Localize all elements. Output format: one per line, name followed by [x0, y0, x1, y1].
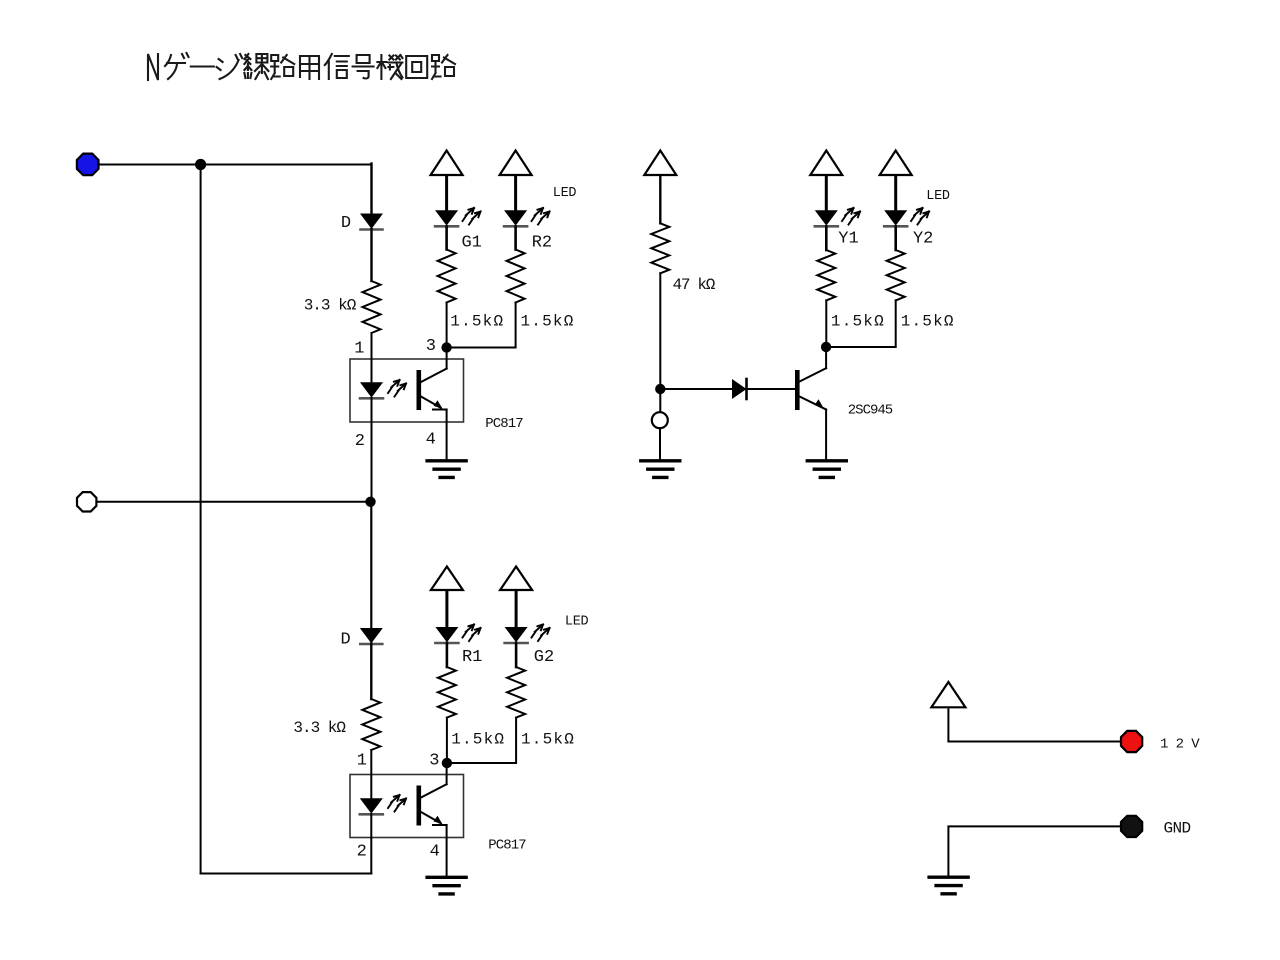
wire resistor R1 to node 3 (lower) [446, 718, 448, 763]
LED G2 arrows [532, 625, 550, 642]
wire top horizontal [92, 164, 372, 166]
LED G2 [505, 628, 555, 668]
wire resistor G1 to node 3 [446, 303, 448, 348]
node junction top-left [195, 159, 206, 170]
resistor 1.5 kΩ (R2) [507, 250, 575, 331]
power symbol (R2 column) [500, 151, 532, 176]
svg-text:G1: G1 [461, 233, 481, 252]
label LED (upper left pair) [553, 186, 577, 201]
svg-text:1: 1 [354, 340, 364, 359]
wire resistor 47k to base node [659, 273, 661, 412]
svg-text:G2: G2 [534, 648, 554, 667]
pin 3 node dot (upper opto) [426, 337, 452, 356]
ground (2SC945 emitter) [807, 461, 846, 478]
LED R2 arrows [532, 208, 550, 225]
power symbol (G1 column) [431, 151, 463, 176]
power symbol (12V legend) [931, 682, 965, 707]
svg-text:R2: R2 [532, 233, 552, 252]
resistor 47 kΩ [651, 223, 715, 294]
svg-text:Y1: Y1 [838, 229, 858, 248]
svg-text:3.3 kΩ: 3.3 kΩ [293, 719, 346, 737]
wire power to resistor 47k [659, 177, 661, 223]
LED G1 [435, 211, 482, 253]
svg-text:3.3 kΩ: 3.3 kΩ [304, 297, 357, 315]
svg-text:2SC945: 2SC945 [848, 403, 893, 419]
label GND [1163, 820, 1190, 838]
node base junction [655, 384, 665, 394]
svg-text:PC817: PC817 [488, 838, 526, 854]
svg-text:2: 2 [355, 432, 365, 451]
wire power to LED R1 [445, 592, 448, 629]
optocoupler U2 PC817 box [350, 775, 526, 854]
wire resistor to pin1 [371, 333, 373, 359]
resistor 1.5 kΩ (R1) [438, 667, 505, 749]
resistor 1.5 kΩ (Y2) [887, 250, 955, 330]
label LED (lower pair) [565, 614, 589, 629]
resistor 1.5 kΩ (Y1) [817, 250, 885, 330]
wire GND legend [948, 826, 1121, 876]
svg-text:D: D [341, 214, 351, 233]
resistor 3.3 kΩ (lower) [293, 699, 380, 750]
diode D (upper) [341, 214, 383, 233]
power symbol (Y2 column) [880, 151, 912, 176]
svg-text:4: 4 [430, 843, 440, 862]
LED Y1 arrows [842, 208, 860, 225]
optocoupler U1 PC817 box [350, 359, 523, 432]
svg-text:GND: GND [1163, 820, 1190, 838]
power symbol (R1 column) [431, 567, 463, 591]
resistor 3.3 kΩ (upper) [304, 281, 381, 333]
opto U1 LED arrows [388, 380, 406, 397]
node junction mid [365, 497, 375, 507]
wire base horizontal [660, 388, 732, 390]
wire LED R2 to resistor [514, 227, 517, 250]
pin 2 label (upper opto) [355, 432, 365, 451]
svg-text:47 kΩ: 47 kΩ [673, 276, 716, 294]
LED Y2 [884, 211, 933, 249]
resistor 1.5 kΩ (G2) [507, 667, 575, 749]
resistor 1.5 kΩ (G1) [438, 250, 505, 331]
wire diode to transistor base [747, 388, 796, 390]
ground (lower opto pin4) [427, 877, 466, 894]
svg-text:2: 2 [357, 843, 367, 862]
svg-text:1.5kΩ: 1.5kΩ [450, 313, 504, 331]
wire LED R1 to resistor [446, 643, 449, 667]
svg-text:PC817: PC817 [485, 416, 523, 432]
wire bottom horizontal [201, 873, 372, 875]
label 12V [1160, 737, 1200, 753]
svg-text:LED: LED [926, 189, 950, 204]
svg-text:3: 3 [426, 337, 436, 356]
LED G1 arrows [463, 208, 481, 225]
LED Y1 [815, 211, 859, 249]
wire power to LED Y2 [894, 177, 897, 212]
power symbol (G2 column) [500, 567, 532, 591]
ground (upper opto pin4) [427, 461, 466, 478]
pin 3 node dot (lower opto) [429, 751, 452, 770]
pin 1 label (lower opto) [357, 751, 367, 770]
terminal GND (black) [1121, 816, 1142, 837]
wire resistor to pin1 (lower) [370, 750, 372, 775]
wire resistor Y1 to collector node [825, 300, 827, 347]
wire mid horizontal [96, 501, 371, 503]
opto U1 internal LED [360, 359, 383, 422]
wire power to LED Y1 [825, 177, 828, 212]
wire diode to resistor (lower) [370, 644, 372, 700]
wire diode to resistor [370, 229, 372, 281]
wire power to LED G1 [445, 177, 448, 212]
wire resistor G2 down and to node 3 (lower) [447, 718, 516, 763]
wire resistor Y2 down and to collector node [826, 300, 896, 347]
wire power to LED R2 [514, 177, 517, 212]
wire mid rail to diode D (lower) [370, 502, 372, 630]
LED Y2 arrows [911, 208, 929, 225]
svg-text:D: D [340, 630, 350, 649]
power symbol (Y1 column) [810, 151, 842, 176]
opto U2 internal LED [360, 775, 383, 839]
LED R2 [504, 211, 552, 253]
wire LED Y2 to resistor [894, 227, 897, 251]
wire to diode D (upper) [370, 164, 372, 216]
ground (legend) [929, 877, 968, 894]
pin 4 label (upper opto) [426, 430, 436, 449]
LED R1 arrows [463, 625, 481, 642]
label LED (right pair) [926, 189, 950, 204]
wire LED Y1 to resistor [825, 227, 828, 251]
svg-text:1.5kΩ: 1.5kΩ [901, 312, 955, 330]
pin 1 label (upper opto) [354, 340, 364, 359]
opto U2 LED arrows [388, 795, 406, 812]
svg-text:R1: R1 [462, 648, 482, 667]
diode D (lower) [340, 629, 382, 650]
wire power to LED G2 [515, 592, 518, 629]
pin 2 label (lower opto) [357, 843, 367, 862]
wire pin2 down to bottom rail [370, 838, 372, 874]
terminal IN1 (blue) [77, 154, 99, 176]
ground (control input) [641, 461, 680, 478]
svg-text:1.5kΩ: 1.5kΩ [520, 313, 574, 331]
LED R1 [435, 628, 482, 668]
diode series (base) [732, 379, 747, 399]
title: Nゲージ線路用信号機回路 [148, 53, 455, 80]
pin 4 label (lower opto) [430, 843, 440, 862]
terminal 12V (red) [1121, 731, 1142, 752]
svg-text:3: 3 [429, 751, 439, 770]
transistor Q1 2SC945 [795, 352, 893, 461]
svg-text:1: 1 [357, 751, 367, 770]
terminal IN2 (open) [77, 492, 96, 511]
terminal control input (open circle) [652, 412, 668, 428]
svg-text:1.5kΩ: 1.5kΩ [831, 312, 885, 330]
collector node dot [821, 342, 831, 352]
wire circle to ground [659, 428, 661, 461]
wire LED G1 to resistor [445, 227, 448, 250]
svg-text:1.5kΩ: 1.5kΩ [521, 731, 575, 749]
wire 12V legend [948, 710, 1121, 742]
wire pin2 down to mid rail [371, 422, 373, 502]
opto U2 phototransistor [417, 768, 447, 877]
opto U1 phototransistor [417, 352, 447, 461]
svg-text:LED: LED [553, 186, 577, 201]
svg-text:4: 4 [426, 430, 436, 449]
svg-text:1.5kΩ: 1.5kΩ [451, 731, 505, 749]
svg-text:Y2: Y2 [913, 229, 933, 248]
svg-text:LED: LED [565, 614, 589, 629]
wire left bus vertical [200, 165, 202, 874]
power symbol (47k column) [644, 151, 676, 176]
wire LED G2 to resistor [515, 643, 518, 667]
wire resistor R2 down and to node 3 [447, 303, 516, 348]
svg-text:1 2 V: 1 2 V [1160, 737, 1200, 753]
